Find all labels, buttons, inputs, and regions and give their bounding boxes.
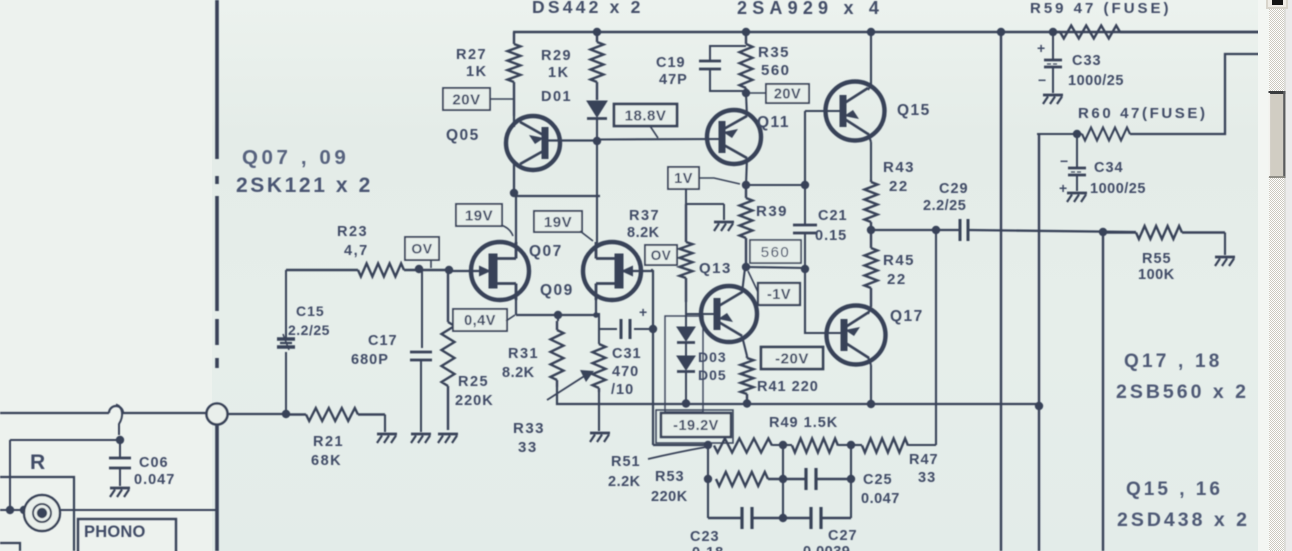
svg-text:D05: D05 — [698, 367, 727, 383]
wire leader from R51 label to row — [648, 447, 706, 459]
resistor R29 1K vertical — [596, 32, 598, 42]
wire Q13 collector up to node (745,267) — [742, 268, 745, 293]
node junction dot at (783,445) — [779, 441, 787, 449]
svg-text:Q15 , 16: Q15 , 16 — [1126, 479, 1223, 500]
node junction dot at (805,269) — [801, 265, 809, 273]
svg-text:47P: 47P — [659, 72, 688, 88]
wire leader from 1V box to emitter node — [699, 178, 740, 184]
svg-text:C23: C23 — [690, 529, 720, 545]
svg-text:18.8V: 18.8V — [625, 107, 667, 124]
capacitor C31 470/10 electrolytic (horizontal) — [599, 328, 617, 330]
svg-text:220K: 220K — [455, 393, 494, 409]
node junction dot at (596,315) — [593, 312, 599, 318]
svg-text:Q17: Q17 — [890, 308, 924, 325]
svg-text:1V: 1V — [674, 171, 693, 187]
wire R60 row y=134 and right riser to y=54 — [1037, 133, 1082, 135]
svg-text:560: 560 — [761, 62, 791, 79]
svg-text:C15: C15 — [296, 303, 325, 319]
node junction dot at (419,269) — [415, 265, 423, 273]
svg-text:8.2K: 8.2K — [627, 225, 660, 241]
svg-text:R60 47(FUSE): R60 47(FUSE) — [1078, 105, 1208, 122]
svg-text:Q17 , 18: Q17 , 18 — [1124, 351, 1222, 372]
svg-text:0.18: 0.18 — [692, 545, 724, 551]
node junction dot at (1077,134) — [1073, 130, 1081, 138]
svg-text:C31: C31 — [612, 346, 642, 362]
wire leader -1V box to node — [748, 271, 758, 292]
wire bottom row y=518 — [708, 517, 742, 519]
diode D05 — [685, 342, 687, 356]
ground below R25 — [438, 433, 458, 436]
wire Q17 collector from R45 — [868, 307, 871, 314]
svg-text:C33: C33 — [1072, 53, 1102, 69]
wire leader from right 19V box — [580, 231, 593, 241]
svg-text:C25: C25 — [863, 472, 893, 488]
svg-text:R43: R43 — [883, 159, 915, 176]
wire vertical x=783 between rows — [782, 445, 784, 518]
resistor R35 560 vertical — [745, 32, 747, 44]
capacitor C25 0.047 — [804, 468, 807, 490]
wire separator line lower solid segment — [215, 425, 219, 551]
svg-text:R47: R47 — [909, 452, 939, 468]
box voltage label 0,4V — [453, 309, 507, 331]
node junction dot at (1103,232) — [1099, 228, 1107, 236]
svg-text:PHONO: PHONO — [84, 523, 146, 541]
node junction dot at (746,267) — [742, 263, 750, 271]
node junction dot at (597,141) D01-base node — [593, 137, 601, 145]
svg-text:D03: D03 — [698, 349, 727, 365]
node junction dot at (746,185) — [742, 181, 750, 189]
svg-text:Q07: Q07 — [529, 243, 563, 260]
svg-text:C21: C21 — [818, 208, 848, 224]
capacitor C29 2.2/25 — [959, 219, 962, 241]
wire Q15 base wire from C21 node vertical x=805 — [805, 110, 843, 112]
node junction dot at (936,230) — [932, 226, 940, 234]
capacitor C34 1000/25 electrolytic — [1076, 134, 1078, 168]
node junction dot at (286,414) — [282, 410, 290, 418]
wire left channel separator line (dash-dot) x=217 — [215, 0, 219, 159]
svg-text:220K: 220K — [651, 489, 688, 505]
svg-text:R25: R25 — [458, 374, 489, 390]
wire leader from 18.8V box down-left — [650, 126, 658, 138]
svg-text:D01: D01 — [541, 89, 572, 105]
svg-text:R31: R31 — [508, 346, 539, 362]
svg-text:22: 22 — [889, 178, 909, 195]
resistor R49 second zigzag of row — [772, 444, 792, 446]
scrollbar track (dithered) — [1269, 0, 1285, 551]
svg-text:Q07 , 09: Q07 , 09 — [242, 146, 349, 169]
svg-text:+: + — [639, 304, 647, 320]
wire vertical x=708 between rows — [707, 445, 709, 518]
svg-text:0.15: 0.15 — [815, 228, 847, 244]
svg-text:R35: R35 — [758, 44, 790, 61]
connector phono jack J (concentric circles) — [24, 495, 60, 531]
svg-text:0.047: 0.047 — [861, 491, 900, 507]
svg-text:+: + — [1037, 40, 1045, 56]
fet Q07 (2SK121) — [471, 242, 529, 300]
resistor R33 33 variable vertical — [598, 313, 600, 344]
svg-text:R: R — [30, 451, 46, 474]
svg-text:2.2K: 2.2K — [608, 474, 641, 490]
node junction dot at (597,32) — [593, 28, 601, 36]
transistor Q13 (PNP 2SA929) — [701, 286, 757, 342]
box voltage label 20V at Q05 — [443, 88, 490, 110]
svg-text:100K: 100K — [1138, 267, 1175, 283]
node junction dot at (558,315) — [554, 311, 562, 319]
resistor R51 2.2K first zigzag of row — [714, 439, 772, 453]
svg-text:R37: R37 — [629, 208, 660, 224]
svg-text:2SK121 x 2: 2SK121 x 2 — [236, 174, 373, 197]
svg-text:20V: 20V — [452, 91, 480, 108]
svg-text:R23: R23 — [337, 224, 368, 240]
wire from D01 node right to Q11 base — [597, 138, 721, 141]
svg-text:1000/25: 1000/25 — [1090, 181, 1146, 197]
node junction dot at (514,193) — [510, 189, 518, 197]
transistor Q11 (PNP 2SA929) — [707, 110, 761, 164]
svg-text:R53: R53 — [655, 469, 685, 485]
svg-text:R21: R21 — [313, 434, 344, 450]
svg-text:2.2/25: 2.2/25 — [923, 198, 966, 214]
wire source join Q07-Q09 y=315 — [516, 314, 596, 316]
resistor R41 220 vertical — [746, 356, 748, 358]
arrow across R33 (adjustable) — [547, 375, 586, 400]
wire leader from 20V box to R27 lead — [490, 98, 513, 100]
resistor R25 220K vertical — [447, 270, 449, 322]
capacitor C19 47P parallel to R35 — [710, 46, 746, 61]
resistor R43 22 vertical — [870, 180, 872, 182]
node open-circle junction on separator at (217,414) — [207, 404, 228, 425]
svg-text:C34: C34 — [1094, 160, 1124, 176]
wire Q11 collector to node (746,93) — [746, 94, 747, 116]
box voltage label OV near R23 — [405, 237, 439, 260]
wire leader from 19V box to Q07 drain — [501, 225, 513, 236]
svg-text:R49 1.5K: R49 1.5K — [769, 415, 838, 431]
node junction dot at (851,479) — [847, 475, 855, 483]
transistor Q15 (NPN 2SD438) — [826, 82, 885, 141]
node junction dot at (747,403) — [743, 399, 751, 407]
svg-text:C19: C19 — [656, 55, 686, 71]
scrollbar up-button remnant at top — [1266, 0, 1288, 9]
node junction dot at (24,510) — [20, 506, 28, 514]
scrollbar right margin column — [1285, 0, 1292, 551]
wire vertical x=851 between rows — [850, 445, 852, 518]
wire leader 20V box to node — [748, 92, 766, 94]
box voltage label -1V — [758, 283, 800, 305]
box voltage label 18.8V — [614, 104, 677, 126]
svg-text:19V: 19V — [544, 214, 572, 231]
node junction dot at (686,403) — [682, 399, 690, 407]
wire from D01 node down to Q09 drain — [596, 141, 598, 243]
svg-text:R29: R29 — [541, 48, 572, 64]
wire Q05 collector node to Q09 drain line y=196 — [516, 195, 600, 197]
scrollbar thumb — [1269, 91, 1286, 178]
svg-text:470: 470 — [612, 364, 639, 380]
capacitor C21 0.15 — [804, 185, 806, 225]
transistor Q17 (PNP 2SB560) — [827, 306, 886, 365]
svg-text:R27: R27 — [456, 47, 487, 63]
svg-text:19V: 19V — [465, 207, 493, 224]
box voltage label 20V at Q11 — [766, 84, 809, 103]
wire Q13 emitter down to R41 — [742, 336, 747, 356]
box enclosure around D03 D05 — [665, 316, 703, 412]
resistor R31 8.2K vertical — [557, 315, 559, 321]
wire R39 bottom to C21 bottom — [746, 267, 805, 268]
wire R37 bottom to Q13 base — [685, 302, 687, 316]
ground below R33/C31 — [598, 392, 600, 431]
capacitor C15 2.2/25 (in series to R23) — [285, 352, 287, 414]
wire stub above R37 to 1V box — [685, 188, 687, 204]
svg-text:1K: 1K — [548, 65, 570, 81]
wire Q11 emitter down to node (746,185) — [746, 158, 747, 185]
box voltage label -19.2V (double frame) — [656, 410, 733, 443]
wire long vertical x=1001 — [1000, 32, 1002, 551]
box voltage label 19V at Q07 — [456, 204, 502, 226]
wire branch S-curve from input wire down to C06 — [116, 405, 122, 436]
svg-text:R55: R55 — [1142, 251, 1172, 267]
wire long vertical x=1039 — [1038, 134, 1040, 551]
svg-text:C27: C27 — [828, 528, 858, 544]
capacitor C17 680P — [421, 270, 423, 348]
resistor R55 100K horizontal — [1103, 231, 1136, 233]
node junction dot at (449,270) — [445, 266, 453, 274]
svg-text:2SD438 x 2: 2SD438 x 2 — [1117, 509, 1250, 531]
resistor R45 22 vertical — [870, 230, 872, 248]
svg-text:R41 220: R41 220 — [757, 379, 819, 395]
node junction dot at (871,230) — [867, 226, 875, 234]
svg-text:-1V: -1V — [767, 287, 791, 303]
wire vertical x=936 down to R47 — [935, 230, 937, 445]
resistor R23 4.7 horizontal — [286, 269, 358, 271]
svg-text:68K: 68K — [311, 453, 342, 469]
capacitor C06 0.047 — [119, 440, 121, 458]
wire leader from 0,4V box — [506, 315, 515, 321]
svg-text:2.2/25: 2.2/25 — [288, 322, 330, 338]
svg-text:680P: 680P — [351, 352, 389, 368]
box partial corner bottom-left — [0, 543, 20, 551]
svg-text:0.0039: 0.0039 — [803, 544, 850, 551]
resistor R27 1K vertical — [513, 32, 515, 44]
resistor R60 47 horizontal — [1082, 128, 1130, 141]
wire leader from OV box to input wire — [430, 260, 432, 268]
ground below R21 — [377, 433, 397, 436]
svg-text:2SA929 x 4: 2SA929 x 4 — [737, 0, 884, 18]
resistor R37 8.2K vertical — [685, 204, 687, 242]
svg-text:Q09: Q09 — [540, 282, 574, 299]
wire Q15 emitter down to R43 — [868, 133, 871, 142]
svg-text:Q13: Q13 — [699, 260, 732, 277]
svg-text:C29: C29 — [939, 181, 969, 197]
fet Q09 (2SK121) — [583, 242, 641, 300]
svg-text:OV: OV — [651, 248, 672, 263]
svg-text:33: 33 — [518, 439, 538, 456]
svg-text:−: − — [1060, 153, 1068, 169]
node junction dot at (708,445) — [704, 441, 712, 449]
node junction dot at top of C06 — [116, 436, 124, 444]
wire from node (120,440) to circle node (217,414) — [228, 413, 287, 415]
diode D03 — [685, 316, 687, 327]
svg-text:0,4V: 0,4V — [464, 313, 496, 329]
wire top supply rail y=32 — [513, 31, 1261, 34]
node junction dot at (1053,32) — [1049, 28, 1057, 36]
capacitor C23 0.18 — [740, 507, 743, 529]
wire Q15 collector to rail — [868, 85, 871, 90]
svg-text:4,7: 4,7 — [344, 243, 369, 259]
resistor R39 560 vertical — [745, 185, 747, 198]
node junction dot at (10,510) — [6, 506, 14, 514]
svg-text:R59 47 (FUSE): R59 47 (FUSE) — [1030, 0, 1172, 17]
node junction dot at (871,32) — [867, 28, 875, 36]
ground top of R37 chain — [686, 203, 724, 205]
svg-text:-19.2V: -19.2V — [673, 418, 719, 434]
svg-text:33: 33 — [918, 470, 936, 486]
wire horizontal input wire y=413 with crossover hop — [0, 412, 109, 414]
svg-text:R45: R45 — [883, 252, 915, 269]
box voltage label 19V at Q09 — [534, 211, 582, 232]
svg-text:22: 22 — [887, 271, 907, 288]
svg-text:/10: /10 — [611, 382, 634, 398]
svg-text:Q05: Q05 — [446, 127, 480, 144]
node junction dot at (1001,32) — [997, 28, 1005, 36]
svg-text:DS442 x 2: DS442 x 2 — [532, 0, 644, 17]
wire emitter node to C21 node y=185 — [746, 184, 805, 186]
svg-text:2SB560 x 2: 2SB560 x 2 — [1116, 381, 1249, 403]
box PHONO input label — [78, 519, 176, 551]
wire R31 bottom corner to -19.2V rail wire y=404 — [557, 387, 1039, 404]
box voltage label -20V — [761, 347, 823, 369]
wire phono jack tip wire y=510 — [0, 509, 217, 511]
svg-text:0.047: 0.047 — [134, 472, 175, 488]
transistor Q05 (PNP 2SA929) — [506, 116, 560, 170]
svg-text:1K: 1K — [466, 64, 488, 80]
svg-text:R51: R51 — [611, 454, 641, 470]
svg-text:C17: C17 — [368, 333, 398, 349]
ground below C17 — [411, 433, 431, 436]
box voltage label 1V — [668, 167, 699, 189]
wire Q17 emitter down to -19.2V rail — [868, 357, 871, 365]
svg-text:8.2K: 8.2K — [502, 365, 535, 381]
wire input box around phono jack — [0, 477, 74, 551]
capacitor C33 1000/25 electrolytic — [1052, 32, 1054, 60]
svg-text:Q15: Q15 — [897, 102, 931, 119]
svg-text:−: − — [1038, 72, 1046, 88]
node junction dot at (746,93) — [742, 89, 750, 97]
node junction dot at (653,329) — [649, 325, 657, 333]
wire Q09 gate drop x=653 to R49 row — [651, 269, 653, 271]
node junction dot at (1039,406) — [1035, 402, 1043, 410]
node junction dot at (783,518) — [779, 514, 787, 522]
resistor R53 220K zigzag row2 — [716, 472, 768, 486]
resistor R59 47 horizontal (on rail) — [1053, 31, 1060, 33]
resistor R47 33 third zigzag of row — [851, 444, 862, 446]
ground below C06 — [110, 487, 130, 490]
resistor R21 68K horizontal — [286, 413, 306, 415]
svg-text:+: + — [1059, 180, 1067, 196]
box value label 560 (R39) — [750, 240, 801, 263]
svg-text:20V: 20V — [774, 87, 801, 103]
capacitor C27 0.0039 — [809, 507, 812, 529]
wire C21 node down to Q17 base — [805, 269, 843, 333]
node junction dot at (805,185) — [801, 181, 809, 189]
wire R-input routing: left and down to phono jack — [10, 439, 120, 441]
node junction dot at (708,479) — [704, 475, 712, 483]
svg-text:R33: R33 — [513, 420, 545, 437]
svg-text:1000/25: 1000/25 — [1068, 73, 1124, 89]
node junction dot at (746,32) — [742, 28, 750, 36]
node junction dot at (851,445) — [847, 441, 855, 449]
svg-text:C06: C06 — [139, 455, 169, 471]
svg-text:R39: R39 — [756, 203, 788, 220]
svg-text:-20V: -20V — [775, 350, 809, 367]
svg-text:560: 560 — [761, 244, 791, 261]
svg-text:Q11: Q11 — [757, 114, 790, 131]
scrollbar page-edge white strip — [1258, 0, 1269, 551]
ground at R55 — [1215, 256, 1235, 259]
wire long vertical x=1103 — [1102, 232, 1104, 551]
wire y=233 from R43/R45 node to the right — [871, 229, 960, 231]
node junction dot at (871,404) — [867, 400, 875, 408]
box voltage label OV at R37 — [645, 245, 677, 265]
svg-text:OV: OV — [411, 241, 432, 257]
diode D01 — [587, 101, 607, 117]
node junction dot at (783,479) — [779, 475, 787, 483]
